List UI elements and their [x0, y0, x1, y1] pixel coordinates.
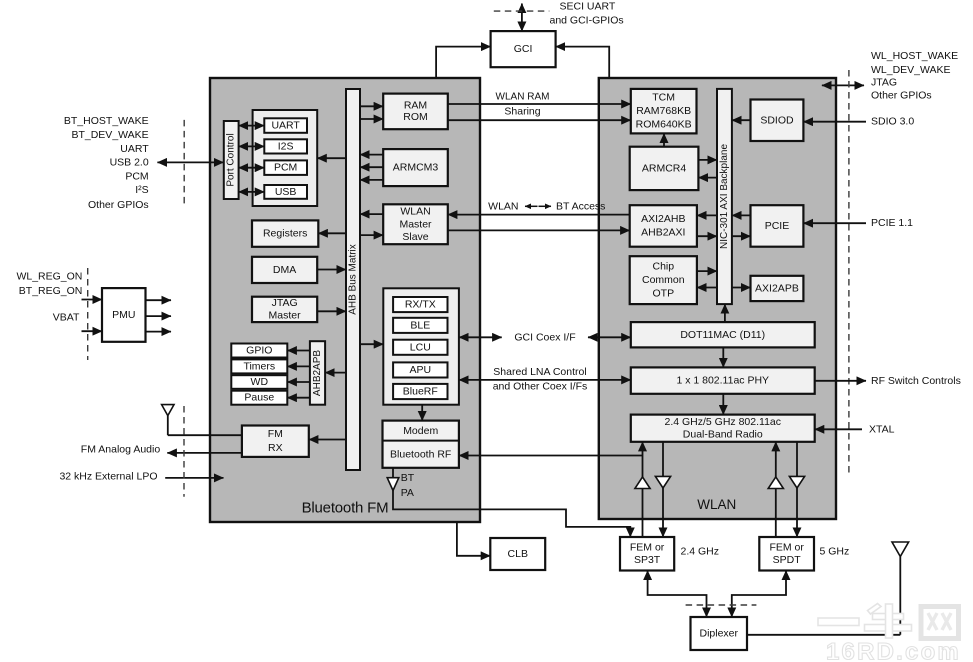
label PCM	[125, 171, 148, 183]
buffer 2.4GHz up	[635, 477, 650, 489]
SDIOD block	[751, 100, 804, 142]
wire AHB bus to UART group	[317, 157, 346, 159]
BLE block	[393, 318, 447, 333]
wire Port Control to USB	[239, 191, 265, 193]
BT PA amplifier	[387, 478, 399, 491]
dashed line BT host boundary	[183, 120, 185, 208]
wire Radio to FEM SP3T RX	[662, 442, 664, 537]
I2S block	[264, 139, 307, 153]
WLAN block	[599, 78, 836, 519]
svg-text:2.4 GHz/5 GHz 802.11ac: 2.4 GHz/5 GHz 802.11ac	[664, 416, 781, 428]
svg-text:Port Control: Port Control	[226, 133, 237, 186]
wire GCI Coex left segment	[459, 336, 502, 338]
label UART	[120, 143, 149, 155]
wire AXI2AHB to NIC bus	[697, 235, 717, 237]
RX/TX block	[393, 297, 447, 312]
Pause block	[231, 391, 287, 405]
svg-text:5 GHz: 5 GHz	[820, 545, 850, 557]
svg-text:Other GPIOs: Other GPIOs	[871, 89, 932, 101]
GPIO block	[231, 344, 287, 358]
wire DMA to AHB bus	[317, 269, 346, 271]
svg-text:PCIE 1.1: PCIE 1.1	[871, 217, 913, 229]
label 32 kHz External LPO	[59, 470, 157, 482]
svg-text:JTAG: JTAG	[272, 297, 298, 309]
label Shared LNA Control	[493, 366, 586, 378]
svg-text:Master: Master	[269, 310, 302, 322]
svg-text:I²S: I²S	[135, 184, 148, 196]
svg-text:BLE: BLE	[410, 319, 430, 331]
dashed line SECI boundary	[494, 10, 550, 12]
label PA	[401, 487, 414, 499]
svg-text:SP3T: SP3T	[634, 554, 661, 566]
wire Bluetooth RF to BT PA	[392, 468, 394, 478]
wire GCI Coex right segment	[588, 336, 631, 338]
FM antenna	[162, 405, 174, 436]
svg-text:WL_REG_ON: WL_REG_ON	[16, 270, 82, 282]
svg-text:CLB: CLB	[508, 548, 528, 560]
label 2.4 GHz	[681, 545, 720, 557]
wire AHB bus to RAM 2	[360, 118, 383, 120]
svg-text:SDIOD: SDIOD	[760, 114, 794, 126]
Bluetooth FM block	[210, 78, 480, 522]
svg-text:Timers: Timers	[243, 360, 275, 372]
svg-text:and Other Coex I/Fs: and Other Coex I/Fs	[493, 381, 588, 393]
svg-text:Bluetooth FM: Bluetooth FM	[302, 500, 389, 517]
USB block	[264, 185, 307, 199]
wire BT radio group to Modem	[421, 405, 423, 421]
wire AHB2APB to WD	[287, 381, 310, 383]
svg-text:NIC-301 AXI Backplane: NIC-301 AXI Backplane	[719, 144, 730, 249]
dashed line FM boundary	[183, 406, 185, 497]
svg-text:RF Switch Controls: RF Switch Controls	[871, 375, 961, 387]
wire SDIOD to NIC bus	[732, 119, 751, 121]
svg-text:AXI2AHB: AXI2AHB	[641, 213, 685, 225]
JTAG Master block	[252, 297, 317, 322]
LCU block	[393, 340, 447, 355]
svg-text:RAM768KB: RAM768KB	[636, 105, 691, 117]
label BT	[401, 472, 415, 484]
wire Shared LNA Control	[459, 379, 631, 381]
FEM or SP3T block	[620, 537, 674, 571]
wire NIC bus to PCIE	[732, 235, 751, 237]
svg-text:1 x 1 802.11ac PHY: 1 x 1 802.11ac PHY	[676, 375, 769, 387]
svg-text:JTAG: JTAG	[871, 77, 897, 89]
wire FM antenna to FM RX	[168, 434, 242, 436]
wire JTAG Master to AHB bus	[317, 310, 346, 312]
label I2S superscript	[135, 184, 148, 196]
svg-text:Dual-Band Radio: Dual-Band Radio	[683, 428, 763, 440]
svg-text:2.4 GHz: 2.4 GHz	[681, 545, 720, 557]
NIC-301 AXI Backplane bar	[717, 89, 732, 304]
Registers block	[252, 220, 318, 246]
wire PMU output 3	[146, 331, 172, 333]
svg-text:APU: APU	[410, 364, 432, 376]
svg-text:WLAN: WLAN	[400, 205, 430, 217]
wire SDIO 3.0 to SDIOD	[803, 121, 866, 123]
label 5 GHz	[820, 545, 850, 557]
wire VBAT input to PMU	[82, 330, 103, 332]
APU block	[393, 362, 447, 377]
wire FEM SPDT to Radio TX	[775, 442, 777, 537]
svg-text:USB: USB	[275, 186, 297, 198]
wire RAM to TCM sharing 1	[448, 103, 631, 105]
wire WL wake signals	[822, 84, 864, 86]
ARMCM3 block	[383, 149, 448, 186]
wire WLAN block to GCI	[556, 47, 610, 77]
wire ARMCR4 to NIC bus	[698, 159, 717, 161]
buffer 2.4GHz down	[655, 476, 670, 488]
label XTAL	[869, 423, 895, 435]
RAM ROM block	[383, 94, 448, 130]
wire FEM SP3T to Radio TX	[642, 442, 644, 537]
svg-text:ARMCM3: ARMCM3	[393, 162, 439, 174]
svg-text:RX: RX	[268, 442, 283, 454]
wire FEM SP3T to Diplexer	[648, 571, 707, 618]
svg-text:WL_HOST_WAKE: WL_HOST_WAKE	[871, 50, 958, 62]
svg-text:Registers: Registers	[263, 228, 307, 240]
svg-text:FM Analog Audio: FM Analog Audio	[81, 443, 161, 455]
svg-text:PCM: PCM	[125, 171, 148, 183]
svg-text:BT: BT	[401, 472, 415, 484]
wire NIC bus to AXI2APB	[732, 287, 751, 289]
svg-text:BT_REG_ON: BT_REG_ON	[19, 285, 83, 297]
wire AHB2APB to Timers	[287, 365, 310, 367]
wire ARMCM3 to AHB bus 2	[360, 166, 383, 168]
svg-text:GCI Coex I/F: GCI Coex I/F	[514, 332, 575, 344]
BT radio group container	[383, 288, 459, 404]
svg-text:RAM: RAM	[404, 100, 427, 112]
svg-text:WL_DEV_WAKE: WL_DEV_WAKE	[871, 64, 951, 76]
AXI2AHB AHB2AXI block	[630, 205, 697, 247]
wire PMU output 2	[146, 315, 172, 317]
label BT_REG_ON	[19, 285, 83, 297]
svg-text:PMU: PMU	[112, 309, 135, 321]
wire PCIE to NIC bus	[732, 214, 751, 216]
wire ARMCM3 to AHB bus 3	[360, 179, 383, 181]
svg-text:BT_DEV_WAKE: BT_DEV_WAKE	[71, 129, 148, 141]
wire Diplexer to WLAN antenna	[747, 634, 900, 636]
dashed line WLAN host boundary	[848, 70, 850, 475]
svg-text:Common: Common	[642, 274, 685, 286]
watermark 16RD.com	[818, 604, 959, 639]
svg-text:AHB Bus Matrix: AHB Bus Matrix	[348, 244, 359, 315]
svg-text:Slave: Slave	[402, 231, 428, 243]
svg-text:FEM or: FEM or	[769, 541, 804, 553]
PMU block	[102, 288, 146, 342]
wire AHB bus to WLAN MS	[360, 234, 383, 236]
svg-text:OTP: OTP	[653, 288, 675, 300]
wire Port Control to PCM	[239, 167, 265, 169]
label JTAG	[871, 77, 897, 89]
label WL_DEV_WAKE	[871, 64, 951, 76]
dashed line PMU boundary	[87, 268, 89, 360]
WLAN Master Slave block	[383, 204, 448, 244]
label USB 2.0	[110, 156, 149, 168]
Modem and Bluetooth RF block	[383, 421, 459, 468]
svg-text:Master: Master	[399, 218, 432, 230]
svg-text:Pause: Pause	[244, 392, 274, 404]
svg-text:AXI2APB: AXI2APB	[755, 282, 799, 294]
svg-text:LCU: LCU	[410, 341, 431, 353]
WLAN antenna	[892, 542, 909, 635]
wire BT PA to FEM SP3T	[393, 491, 630, 538]
wire FEM SPDT to Diplexer	[732, 571, 786, 618]
label RF Switch Controls	[871, 375, 961, 387]
svg-text:WLAN RAM: WLAN RAM	[496, 92, 550, 103]
wire ARMCM3 to AHB bus 1	[360, 154, 383, 156]
CLB block	[490, 538, 545, 570]
DOT11MAC block	[631, 322, 815, 347]
svg-text:PCIE: PCIE	[765, 220, 790, 232]
svg-text:Diplexer: Diplexer	[699, 628, 738, 640]
label and GCI-GPIOs	[550, 15, 624, 27]
label PCIE 1.1	[871, 217, 913, 229]
PCIE block	[751, 205, 804, 247]
svg-text:32 kHz External LPO: 32 kHz External LPO	[59, 470, 157, 482]
wire Port Control to UART	[239, 125, 265, 127]
buffer 5GHz up	[768, 477, 783, 489]
label BT_DEV_WAKE	[71, 129, 148, 141]
wire AHB bus to Registers	[318, 232, 346, 234]
label SECI UART	[560, 1, 616, 13]
wire NIC bus to AXI2AHB	[697, 214, 717, 216]
wire 2.4GHz path to Bluetooth RF	[459, 455, 643, 457]
svg-text:DMA: DMA	[273, 264, 296, 276]
svg-text:UART: UART	[120, 143, 149, 155]
svg-text:I2S: I2S	[278, 140, 294, 152]
label SDIO 3.0	[871, 116, 914, 128]
FM RX block	[242, 426, 309, 457]
label Other GPIOs	[88, 199, 149, 211]
svg-text:TCM: TCM	[652, 92, 675, 104]
WD block	[231, 375, 287, 389]
wire XTAL to Radio	[815, 428, 862, 430]
label WL_HOST_WAKE	[871, 50, 958, 62]
wire WLAN MS to AXI2AHB	[448, 229, 630, 231]
AHB Bus Matrix bar	[346, 89, 360, 470]
wire Port Control to I2S	[239, 145, 265, 147]
wire RAM to TCM sharing 2	[448, 119, 631, 121]
wire AHB bus to RAM 1	[360, 105, 383, 107]
label BT_HOST_WAKE	[64, 115, 149, 127]
wire REG_ON input to PMU	[82, 299, 103, 301]
wire AHB2APB to Pause	[287, 397, 310, 399]
wire AHB bus to AHB2APB	[325, 372, 346, 374]
label FM Analog Audio	[81, 443, 161, 455]
ARMCR4 block	[630, 147, 699, 190]
TCM block	[631, 89, 697, 133]
wire AHB bus to FM RX	[309, 439, 346, 441]
svg-text:WLAN: WLAN	[488, 200, 518, 212]
svg-text:ROM: ROM	[403, 111, 428, 123]
wire PMU output 1	[146, 299, 172, 301]
wire ARMCR4 to TCM	[663, 133, 665, 146]
Chip Common OTP block	[630, 256, 697, 304]
wire AHB bus to BT radio group	[360, 343, 383, 345]
svg-text:and GCI-GPIOs: and GCI-GPIOs	[550, 15, 624, 27]
label GCI Coex I/F	[514, 332, 575, 344]
svg-text:SECI UART: SECI UART	[560, 1, 616, 13]
FEM or SPDT block	[759, 537, 814, 571]
wire AXI2AHB to WLAN MS	[448, 214, 630, 216]
svg-text:PCM: PCM	[274, 162, 297, 174]
svg-text:Sharing: Sharing	[504, 106, 540, 118]
label WLAN RAM	[496, 92, 550, 103]
label WL_REG_ON	[16, 270, 82, 282]
PCM block	[264, 160, 307, 175]
svg-text:Other GPIOs: Other GPIOs	[88, 199, 149, 211]
label Other GPIOs right	[871, 89, 932, 101]
Dual-Band Radio block	[631, 415, 815, 442]
UART group container	[253, 110, 318, 206]
wire SECI UART to GCI	[521, 4, 523, 32]
label VBAT	[53, 311, 80, 323]
wire DOT11MAC to NIC bus	[724, 304, 726, 322]
wire PHY to Radio	[722, 394, 724, 415]
svg-text:Modem: Modem	[403, 425, 438, 437]
AHB2APB bridge bar	[310, 341, 325, 405]
svg-text:BT Access: BT Access	[556, 200, 605, 212]
label Sharing	[504, 106, 540, 118]
wire Chip Common to NIC bus	[697, 270, 717, 272]
svg-text:AHB2APB: AHB2APB	[312, 350, 323, 396]
wire WLAN MS to AHB bus	[360, 213, 383, 215]
svg-text:PA: PA	[401, 487, 414, 499]
label and Other Coex I/Fs	[493, 381, 588, 393]
svg-text:16RD.com: 16RD.com	[826, 639, 961, 662]
802.11ac PHY block	[631, 367, 815, 393]
svg-text:WLAN: WLAN	[697, 497, 736, 512]
svg-text:UART: UART	[271, 120, 300, 132]
label WLAN <-> BT Access	[488, 200, 605, 212]
svg-text:XTAL: XTAL	[869, 423, 895, 435]
svg-text:WD: WD	[251, 376, 269, 388]
Diplexer block	[691, 617, 748, 650]
wire AHB2APB to GPIO	[287, 350, 310, 352]
svg-text:RX/TX: RX/TX	[405, 299, 436, 311]
wire BT block to GCI	[436, 47, 491, 77]
svg-text:DOT11MAC (D11): DOT11MAC (D11)	[680, 329, 765, 341]
Port Control block	[224, 121, 239, 199]
wire PHY to RF Switch Controls	[815, 380, 866, 382]
svg-text:ARMCR4: ARMCR4	[642, 162, 686, 174]
DMA block	[252, 257, 317, 283]
svg-text:FEM or: FEM or	[630, 541, 665, 553]
Timers block	[231, 359, 287, 373]
wire PCIE 1.1 to PCIE	[803, 222, 866, 224]
dashed line diplexer boundary	[686, 604, 757, 606]
svg-text:Shared LNA Control: Shared LNA Control	[493, 366, 586, 378]
wire FM Analog Audio out	[167, 452, 242, 454]
wire NIC bus to ARMCR4	[698, 177, 717, 179]
svg-text:BlueRF: BlueRF	[403, 386, 438, 398]
wire NIC bus to Chip Common	[697, 287, 717, 289]
svg-text:USB 2.0: USB 2.0	[110, 156, 149, 168]
BlueRF block	[393, 384, 447, 399]
svg-text:GPIO: GPIO	[246, 345, 272, 357]
svg-text:Bluetooth RF: Bluetooth RF	[390, 448, 451, 460]
svg-text:FM: FM	[268, 428, 283, 440]
wire Radio to FEM SPDT RX	[796, 442, 798, 537]
GCI block	[491, 31, 556, 67]
svg-text:Chip: Chip	[652, 261, 674, 273]
svg-text:VBAT: VBAT	[53, 311, 80, 323]
svg-text:SPDT: SPDT	[773, 554, 802, 566]
wire BT block to CLB	[457, 522, 490, 556]
wire USB 2.0 to Port Control	[157, 161, 223, 163]
svg-text:ROM640KB: ROM640KB	[636, 119, 692, 131]
svg-text:AHB2AXI: AHB2AXI	[641, 227, 685, 239]
wire DOT11MAC to PHY	[722, 347, 724, 367]
wire 32 kHz LPO input	[165, 477, 223, 479]
UART block	[264, 118, 307, 133]
svg-text:GCI: GCI	[514, 43, 533, 55]
buffer 5GHz down	[789, 476, 804, 488]
svg-text:SDIO 3.0: SDIO 3.0	[871, 116, 914, 128]
svg-text:BT_HOST_WAKE: BT_HOST_WAKE	[64, 115, 149, 127]
AXI2APB block	[751, 276, 804, 301]
